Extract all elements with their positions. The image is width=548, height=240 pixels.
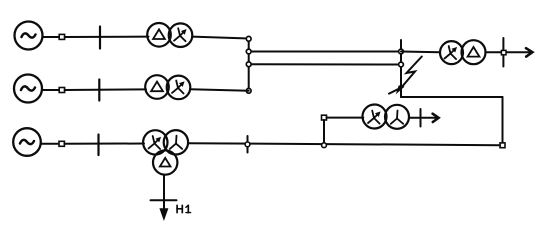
bus tick row1 <box>99 27 101 49</box>
arrowhead middle load <box>433 114 439 122</box>
wire W1 to W2 lower <box>249 63 401 65</box>
wire node to T4 <box>327 117 364 119</box>
wire G3 to breaker <box>41 143 59 145</box>
generator G3 <box>13 128 41 156</box>
wire down-link vertical <box>502 97 504 145</box>
node W2 upper <box>399 49 404 54</box>
wire G2 to breaker <box>42 89 59 91</box>
node W1 row2 <box>246 88 251 93</box>
wire W2 to transformer T3 <box>401 51 440 54</box>
wire T1 to bus W1 <box>192 37 249 39</box>
arrowhead to system <box>526 48 532 56</box>
wire T3 to system arrow <box>486 51 532 53</box>
generator G2 <box>14 75 42 103</box>
node W1 row1 <box>246 36 251 41</box>
wire W2 down-link horizontal <box>401 96 503 98</box>
bus tick middle <box>420 109 422 127</box>
node W2 lower <box>399 62 404 67</box>
transformer T2 <box>145 75 190 99</box>
wire T5 tertiary down <box>163 175 165 212</box>
wire W1 to W2 upper <box>249 51 401 53</box>
arrowhead H1 load <box>160 209 168 220</box>
breaker square row1 <box>59 34 64 39</box>
bus W1 vertical <box>248 39 250 91</box>
node to T4 branch <box>322 115 327 120</box>
transformer T4 <box>363 105 410 129</box>
node W1 upper link <box>246 49 251 54</box>
transformer T5 three-winding <box>143 130 188 175</box>
bus W2 vertical <box>400 40 402 97</box>
bus tick row3 <box>97 135 99 156</box>
wire breaker to transformer T1 <box>65 36 149 38</box>
bus tick right <box>502 38 504 67</box>
wire T4 to load arrow <box>409 117 438 119</box>
node on tick row3 <box>245 142 250 147</box>
transformer T1 <box>147 23 192 47</box>
bus tick row3 right <box>247 136 249 153</box>
wire node down to bottom bus <box>323 120 325 145</box>
bus tick row2 <box>98 80 100 101</box>
node bottom right corner <box>500 143 505 148</box>
wire breaker to transformer T5 <box>64 143 144 145</box>
label H1 <box>177 205 191 212</box>
breaker square row2 <box>59 88 64 93</box>
breaker square on T3 line <box>501 50 506 54</box>
wire T2 to bus W1 <box>190 89 249 91</box>
node bottom bus at T4 branch <box>322 143 327 148</box>
fault lightning bolt k <box>389 57 422 94</box>
generator G1 <box>15 22 43 50</box>
wire G1 to breaker <box>43 36 60 38</box>
wire T5 to bottom bus <box>188 143 500 145</box>
breaker square row3 <box>59 141 64 146</box>
tick on H1 lead <box>151 199 177 201</box>
node W1 lower link <box>246 62 251 67</box>
wire breaker to transformer T2 <box>65 88 146 91</box>
transformer T3 <box>440 40 486 64</box>
